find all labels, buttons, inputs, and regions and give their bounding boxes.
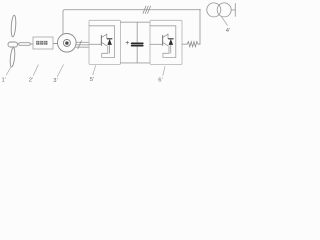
machine-side converter box (5') <box>89 20 121 64</box>
DC link bottom rail <box>121 62 151 64</box>
converter 6 internal bottom wire <box>163 53 176 57</box>
IGBT U1 emitter lead <box>107 46 109 53</box>
capacitor C1 plates <box>132 43 143 45</box>
converter 5 internal top wire <box>89 25 115 27</box>
IGBT U2 collector stub <box>167 34 169 39</box>
IGBT U2 symbol slants <box>163 34 168 46</box>
turbine hub <box>8 42 18 47</box>
capacitor C1 vertical wires <box>136 22 138 63</box>
diode D1 triangle <box>107 39 112 45</box>
generator center dot <box>65 41 68 44</box>
wind turbine blade lower <box>9 48 15 68</box>
wire transformer to grid bar <box>231 9 235 11</box>
diode D2 lower lead <box>170 45 172 53</box>
IGBT U1 gate bar <box>100 36 102 46</box>
svg-text:4’: 4’ <box>226 28 231 34</box>
generator outer circle (3') <box>58 34 77 53</box>
wire shaft to gearbox <box>17 43 33 45</box>
IGBT U1 gate lead <box>89 43 101 45</box>
wire generator top to top bus <box>63 10 200 34</box>
three-phase slashes on top bus <box>143 6 151 13</box>
DC link top rail <box>121 21 151 23</box>
svg-text:3’: 3’ <box>53 78 58 84</box>
converter 5 internal bottom wire <box>102 53 115 57</box>
leader line 4 <box>221 16 228 26</box>
IGBT U2 gate bar <box>162 36 164 46</box>
filter inductor zigzag <box>187 42 200 47</box>
gearbox box (2') <box>33 37 53 49</box>
IGBT U1 collector stub <box>106 34 108 39</box>
converter 6 internal top wire <box>150 25 176 27</box>
IGBT U2 gate lead <box>150 43 162 45</box>
grid end bar <box>234 4 236 17</box>
IGBT U2 emitter lead <box>168 46 170 53</box>
leader line 2 <box>33 65 38 76</box>
leader line 5 <box>93 66 96 75</box>
wire converter to filter <box>182 43 187 45</box>
transformer circle left (4') <box>207 3 221 17</box>
leader line 1 <box>6 67 11 75</box>
transformer circle right <box>217 3 231 17</box>
slash on rotor wires <box>78 41 82 49</box>
leader line 3 <box>57 65 63 77</box>
svg-text:1’: 1’ <box>2 78 7 84</box>
generator inner circle <box>63 39 70 46</box>
svg-text:2’: 2’ <box>29 78 34 84</box>
three-phase wires generator to converter <box>76 42 89 47</box>
wire filter up to bus <box>199 10 201 45</box>
grid-side converter box (6') <box>150 20 182 64</box>
wind turbine blade upper (1') <box>11 15 17 37</box>
diode D1 lower lead <box>109 45 111 53</box>
converter 5 internal right wire <box>114 26 116 58</box>
main shaft (double line) <box>19 43 31 46</box>
svg-text:5’: 5’ <box>90 77 95 83</box>
diode D2 triangle <box>169 39 174 45</box>
IGBT U1 symbol slants <box>102 34 107 46</box>
junction dot <box>199 9 201 11</box>
capacitor plus sign <box>126 41 129 44</box>
diode D1 cathode bar <box>107 38 112 40</box>
diode D2 cathode bar <box>169 38 174 40</box>
converter 6 internal right wire <box>175 26 177 58</box>
svg-text:6’: 6’ <box>158 78 163 84</box>
shaft gearbox to generator <box>53 43 58 45</box>
gearbox label text smudge <box>36 41 47 45</box>
leader line 6 <box>163 66 165 75</box>
